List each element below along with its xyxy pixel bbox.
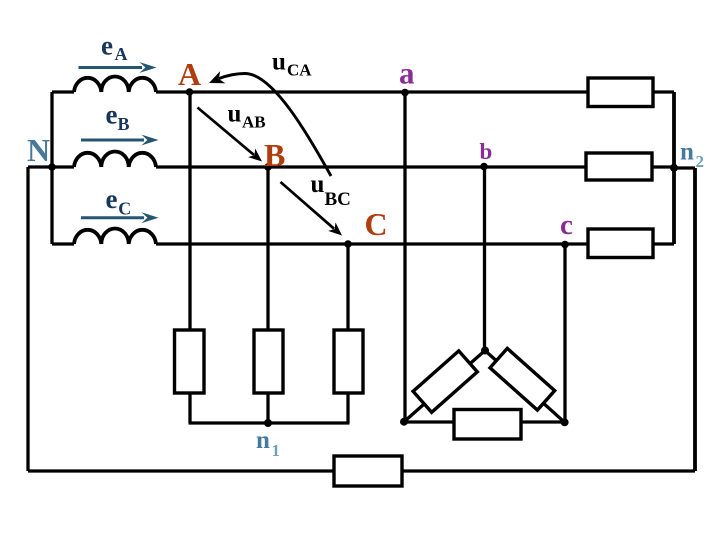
wire: bottom neutral left segment [28,469,334,472]
resistor Rb (phase b load) [586,153,652,180]
node a dot [401,89,409,97]
wire: stub resistor Rc right [653,242,675,245]
node n2 dot [670,164,678,172]
resistor delta bottom [454,410,521,440]
arrow uBC [281,182,343,236]
wire: generator left vertical bus x=52 [50,92,53,244]
resistor Ra (phase a load) [588,78,653,107]
wire: delta right diagonal [485,351,565,423]
svg-text:B: B [264,137,285,173]
resistor star phase B [254,330,283,393]
svg-text:B: B [118,114,130,134]
svg-text:n: n [256,427,270,454]
svg-text:A: A [178,56,201,92]
wire: delta left diagonal [404,351,485,422]
wire: stub resistor Rb right [652,165,674,168]
arrow eC [81,212,159,223]
node B dot [264,163,272,171]
svg-text:C: C [365,206,388,242]
wire: node C down to star resistor [346,244,349,330]
node C dot [344,240,352,248]
arrow uAB [198,108,263,162]
inductor eB coil [74,151,156,167]
wire: right neutral vertical x=695 [693,168,697,471]
wire: stub resistor Ra right [653,90,674,93]
wire: phase C bus, y=244 [52,242,588,245]
svg-text:a: a [399,55,415,90]
svg-text:u: u [272,49,286,76]
wire: delta bottom side [404,420,565,423]
svg-text:e: e [106,184,118,214]
wire: node c down to delta right vertex [563,244,566,422]
svg-text:u: u [228,101,242,128]
node delta apex dot [481,347,489,355]
arrow eB [81,135,159,146]
svg-text:BC: BC [325,189,351,210]
wire: node A down to star resistor [188,92,191,330]
wire: phase A bus, y=92 [52,90,588,93]
wire: right load common vertical x=674 [672,92,676,244]
inductor eC coil [74,228,156,244]
wire: bottom neutral right segment [402,469,695,472]
wire: node a down to delta left vertex [403,92,406,422]
svg-text:CA: CA [287,61,312,80]
arrow eA [79,62,157,73]
node N junction dot [48,163,56,171]
svg-text:N: N [27,132,50,168]
resistor delta right (tilted) [490,348,555,410]
svg-text:u: u [311,171,325,198]
wire: neutral stub from N junction to left edge [28,165,54,168]
node c dot [561,241,569,249]
resistor delta left (tilted) [413,351,477,412]
svg-text:c: c [560,209,573,241]
resistor Rc (phase c load) [588,229,653,258]
node delta left vertex dot [400,418,408,426]
wire: node B down to star resistor [266,167,269,330]
svg-text:b: b [480,139,493,164]
svg-text:AB: AB [242,113,266,132]
svg-text:C: C [118,199,131,219]
wire: phase B bus, y=167 [52,165,586,168]
svg-text:e: e [106,100,118,130]
inductor eA coil [74,77,156,93]
svg-text:2: 2 [696,152,705,171]
node delta right vertex dot [561,418,569,426]
resistor star phase C [334,330,363,393]
node n1 dot [264,419,272,427]
node b dot [480,163,488,171]
resistor star phase A [175,330,205,393]
resistor neutral (bottom wire) [334,456,402,486]
node A dot [186,88,194,96]
wire: node b down to delta apex [483,167,486,351]
svg-text:A: A [115,44,128,64]
svg-text:1: 1 [272,441,281,460]
svg-text:n: n [680,138,694,165]
wire: star resistor bottoms to n1 bus [189,393,350,423]
wire: n2 stub to right vertical [674,166,695,169]
wire: left neutral vertical x=28 [26,167,29,471]
svg-text:e: e [101,31,113,61]
arrow uCA (curved) [209,71,331,176]
